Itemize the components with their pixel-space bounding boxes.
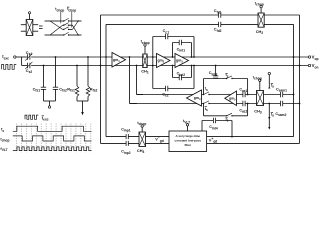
svg-text:ts: ts bbox=[226, 117, 229, 122]
svg-text:tchop: tchop bbox=[253, 75, 262, 80]
svg-text:tchop: tchop bbox=[67, 7, 76, 12]
svg-text:ts: ts bbox=[226, 73, 229, 78]
svg-text:ts: ts bbox=[205, 87, 208, 92]
svg-text:filter: filter bbox=[184, 143, 191, 147]
svg-text:A very large-time: A very large-time bbox=[175, 134, 200, 138]
svg-text:tchop: tchop bbox=[255, 1, 264, 6]
svg-text:ts: ts bbox=[271, 112, 274, 117]
svg-text:ts: ts bbox=[205, 107, 208, 112]
svg-text:tVLT: tVLT bbox=[183, 119, 190, 124]
svg-text:ts: ts bbox=[271, 83, 274, 88]
svg-text:tchop: tchop bbox=[137, 121, 146, 126]
svg-text:tchop: tchop bbox=[55, 7, 64, 12]
svg-text:constant low-pass: constant low-pass bbox=[175, 138, 202, 142]
